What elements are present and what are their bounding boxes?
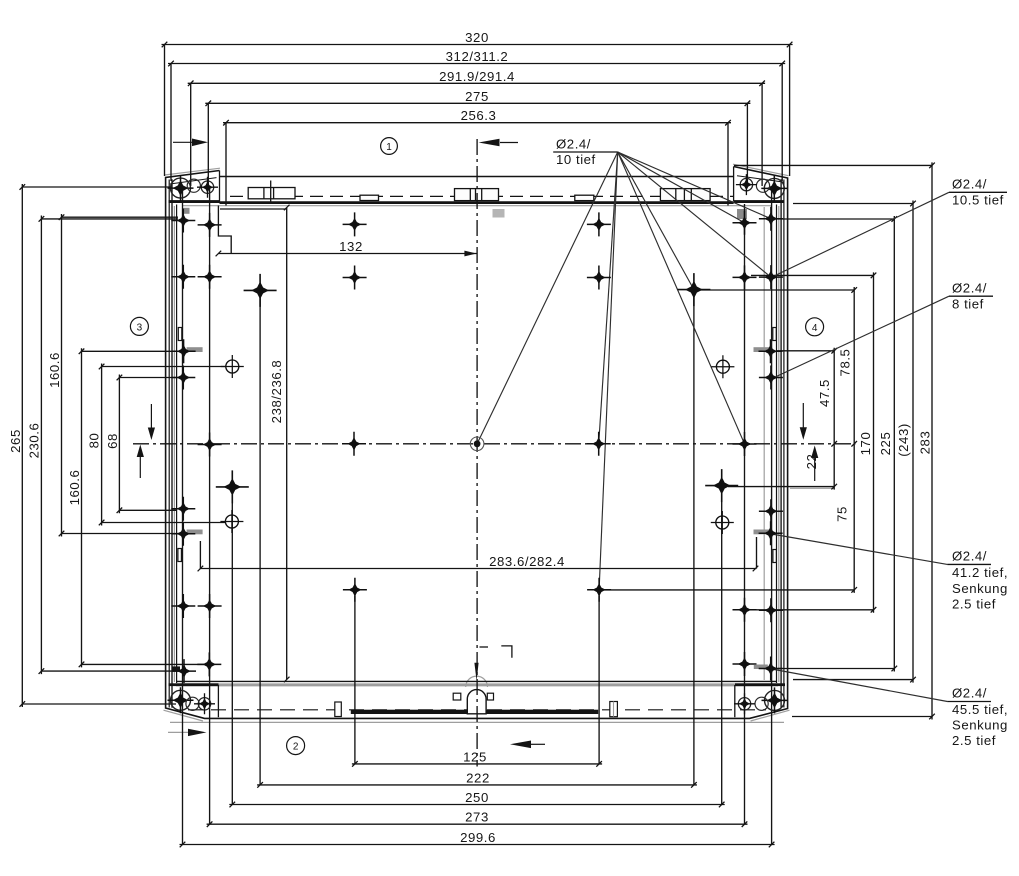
hole cross (598.9,277.5) [587,266,611,290]
underline 10.5 tief [949,191,1007,193]
gray square below top edge right [737,209,747,219]
dim 222 line [257,295,697,785]
svg-text:80: 80 [87,433,102,449]
hole cross (183.3,377.5) [171,366,195,390]
svg-text:68: 68 [105,433,120,449]
dim 132 step bracket [218,206,231,254]
dim 238 top extension [220,208,287,210]
svg-text:238/236.8: 238/236.8 [269,360,284,424]
corner plate TL inner slant [170,178,217,184]
dim 160.6 upper line [62,214,180,537]
svg-text:Ø2.4/: Ø2.4/ [952,177,987,192]
dim 132 arrowhead [464,251,476,257]
circle-cross (722.3,522.5) [711,511,734,534]
small down arrow above notch [474,663,478,681]
notch flank square right [487,693,493,700]
extension column x=771.6 [771,190,773,845]
svg-text:1: 1 [386,142,392,153]
dim 132 line [218,253,476,255]
svg-text:47.5: 47.5 [817,379,832,407]
underline 8 tief [949,295,993,297]
hole cross (599.1,589.8) [587,578,611,602]
hole tab-cross (770.5,351.3) [759,339,783,363]
svg-text:312/311.2: 312/311.2 [446,49,509,64]
corner plate TR left edge [733,167,735,202]
center notch arch [467,690,486,714]
dark rect near bottom-left cross [172,666,180,670]
tab group right [660,189,710,201]
svg-text:299.6: 299.6 [460,830,496,845]
L-mark 1 [480,646,489,648]
hole cross (744.5,609.8) [733,598,757,622]
corner plate TL bottom thick [169,200,220,203]
svg-text:Ø2.4/: Ø2.4/ [952,281,987,296]
arrow right top-left [173,141,193,143]
bottom inner edge [177,680,777,682]
hole cross (598.7,443.8) [587,432,611,456]
dim 78.5/75 line [604,287,854,593]
extension column x=209.6 [209,189,211,824]
side clip right inner [613,702,615,717]
L-mark 2 [501,646,512,658]
tick marks right dims [831,163,934,720]
hole cross (183.3,508.7) [171,497,195,521]
svg-text:160.6: 160.6 [67,470,82,506]
dim 80 line [102,364,226,526]
hole cross (770.9,610.3) [759,598,783,622]
dim 225 line [777,216,894,672]
dim 265 line [22,184,176,707]
fan leader to right wall centerline cross [618,152,745,444]
left inner wall [176,205,178,684]
companion cross-circle TR [736,174,757,195]
dim 256.3 line [223,123,731,206]
svg-text:222: 222 [466,770,490,785]
right wall line 3 [780,179,782,708]
svg-text:230.6: 230.6 [27,423,42,459]
fan leader to center point [477,152,618,444]
svg-text:283.6/282.4: 283.6/282.4 [489,554,565,569]
underline 41.2 tief [947,563,991,565]
left wall line 2 [168,180,170,708]
hole cross (183.3,220.5) [171,209,195,233]
top main edge thick [220,201,734,204]
dim 283 line [734,162,932,719]
boss BR [762,687,788,713]
tab group center [455,189,499,201]
hole cross (770.7,668.5) [759,657,783,681]
hole cross (209.6,606) [198,594,222,618]
gray tail of bottom-left arrow [168,731,190,733]
top wall rim line [220,176,734,178]
hole cross (354,443.8) [342,432,366,456]
dim 230.6 line [41,216,181,675]
wall tab upper left [178,328,182,341]
gray square below top edge center [493,209,505,218]
tab group left [248,188,295,199]
arrow up right-mid [814,457,816,481]
svg-text:320: 320 [465,30,489,45]
underline 45.5 tief [947,701,991,703]
gray bar tab-cross left upper [187,347,203,352]
corner plate TL right edge [219,171,221,202]
companion cross-circle BL [194,693,215,714]
gray right wall line [778,206,780,682]
hole cross (770.9,277.1) [759,265,783,289]
dim (243) line [793,201,913,683]
corner plate BL top thick [169,683,219,686]
big cross (721.7,485.6) [705,469,738,502]
boss TL [168,175,194,201]
svg-text:Senkung: Senkung [952,581,1008,596]
svg-text:78.5: 78.5 [838,349,853,377]
svg-text:125: 125 [463,749,487,764]
hole cross (744.5,444) [733,432,757,456]
hole cross (183.3,606) [171,594,195,618]
top annotation underline [553,151,618,153]
hole cross (354.6,277.5) [343,266,367,290]
small tab right-mid [575,195,594,200]
gray bar tab-cross left lower [187,530,203,535]
hole cross (598.9,224.4) [587,212,611,236]
dim 170 line [751,272,874,612]
svg-text:10.5 tief: 10.5 tief [952,193,1004,208]
gray right rib [763,207,765,680]
arrow down right-mid [802,403,804,428]
top dashed hidden line [230,195,733,197]
corner plate TR bottom thick [734,200,784,203]
companion circle BL [186,697,199,710]
gray left wall line [173,206,175,682]
fan leader to right wall cross row1 [618,152,745,223]
boss BL [168,687,194,713]
gray square below top edge left [184,208,190,214]
gray arch above notch [466,676,488,687]
hole cross (209.6,276.8) [198,265,222,289]
gray corner slant TR [733,164,789,176]
vertical centerline [476,139,478,767]
companion circle TL [187,179,200,192]
arrow right bottom-left [188,729,207,736]
center point [474,440,481,447]
corner plate TR inner slant [737,176,784,182]
hole cross (209.6,224.9) [198,213,222,237]
big cross (693.9,289.6) [677,273,710,306]
svg-text:170: 170 [858,432,873,456]
svg-text:4: 4 [812,323,818,334]
hole cross (744.5,222.8) [733,211,757,235]
svg-text:160.6: 160.6 [47,352,62,388]
hole cross (770.9,511.2) [759,499,783,523]
big cross (260.1,290.4) [244,274,277,307]
left wall line 3 [171,179,173,708]
hole tab-cross (770.6,533.3) [759,521,783,545]
notch flank square left [453,693,461,700]
fan leader to right wall cross row0 [618,152,771,219]
small tab left-mid [360,195,379,200]
svg-text:2: 2 [293,742,299,753]
svg-text:Ø2.4/: Ø2.4/ [952,549,987,564]
svg-text:225: 225 [878,432,893,456]
side clip right [610,702,618,717]
boss TR [761,175,787,201]
hole cross (209.6,444.5) [198,433,222,457]
svg-text:41.2 tief,: 41.2 tief, [952,565,1008,580]
gray top edge line [183,205,771,207]
leader 10.5 tief [772,192,949,277]
gray bar tab-cross right upper [754,347,770,352]
circle-cross (722.9,366.7) [711,355,734,378]
side clip left [335,702,342,717]
companion cross-circle TL [197,177,218,198]
hole tab-cross (183.6,351.3) [172,339,196,363]
svg-text:Ø2.4/: Ø2.4/ [952,686,987,701]
svg-text:75: 75 [835,506,850,522]
circle-cross (231.9,521.5) [220,510,243,533]
svg-text:3: 3 [137,323,143,334]
svg-text:Ø2.4/: Ø2.4/ [556,137,591,152]
outer boundary path [166,167,788,719]
svg-text:45.5 tief,: 45.5 tief, [952,702,1008,717]
svg-text:132: 132 [339,239,363,254]
svg-text:283: 283 [918,431,933,455]
dim 312/311.2 line [168,64,785,182]
bottom thick bar [351,710,598,714]
horizontal centerline [133,443,856,445]
arrow up left-mid [139,456,141,478]
dim 320 line [162,45,793,177]
dim 238 ticks [284,205,290,683]
leader 45.5 tief [772,669,948,702]
arrow left bottom-center [531,743,545,745]
hole cross (183.3,276.8) [171,265,195,289]
dim 125 line [352,596,602,764]
balloon 3 [130,317,148,335]
fan leader to lower mid cross [599,152,618,590]
gray 22-line lower double [790,487,834,489]
dim 160.6 lower line [82,348,205,667]
gray corner slant BL [164,710,204,721]
dim 275 line [205,103,750,187]
hole cross (209.3,664.4) [197,652,221,676]
leader 8 tief [772,296,949,378]
dim 132 tick [216,251,222,257]
svg-text:265: 265 [8,429,23,453]
circle-cross (232.3,366.5) [221,355,244,378]
tick marks top dims [162,42,793,126]
corner plate BL right edge [217,685,219,717]
svg-text:10 tief: 10 tief [556,152,596,167]
leader 41.2 tief [772,534,948,564]
gray bar tab-cross right lower [754,530,770,535]
hole cross (744.5,277.4) [733,265,757,289]
companion circle BR [755,697,768,710]
dim 283.6 ticks [198,566,759,572]
gray bottom outer line [170,721,784,723]
right wall line 2 [783,180,785,708]
fan leader to mid cross [599,152,618,444]
svg-text:2.5 tief: 2.5 tief [952,733,996,748]
hole cross (770.9,218.7) [759,207,783,231]
dim 291.9/291.4 line [188,83,765,186]
dim 238 line [286,208,288,680]
hole cross (354.9,589.8) [343,578,367,602]
companion cross-circle BR [734,693,755,714]
svg-text:273: 273 [465,810,489,825]
tick marks bottom dims [180,761,775,847]
svg-text:256.3: 256.3 [461,108,497,123]
wall tab upper right [773,328,777,341]
wall tab lower left [178,549,182,562]
corner plate BR left edge [734,685,736,717]
fan leader to big cross right [618,152,694,290]
gray bottom inner band [176,683,778,686]
hole cross (770.9,377.5) [759,366,783,390]
dim 68 line [119,375,177,514]
companion circle TR [756,179,769,192]
hole cross (184,671.1) [172,659,196,683]
hole cross (744.5,664) [733,652,757,676]
big cross (232.3,486.9) [216,470,249,503]
svg-text:Senkung: Senkung [952,718,1008,733]
svg-text:250: 250 [465,790,489,805]
wall tab lower right [773,550,777,563]
extension column x=182.5 [182,190,184,845]
extension column x=744.5 [744,204,746,824]
balloon 4 [806,318,824,336]
dim 47.5/22 line [728,348,834,490]
gray corner slant BR [751,710,790,721]
arrow left top-center [500,142,518,144]
hole tab-cross (183.3,533.8) [171,522,195,546]
bottom dashed hidden line [188,709,766,711]
dim 273 line [207,823,748,825]
gray corner slant TL [165,168,221,175]
svg-text:22: 22 [804,454,819,470]
arrow down left-mid [150,404,152,428]
gray bar near (770.7,668.5) [754,665,768,670]
fan leader to right wall cross row2 [618,152,771,277]
dim 250 line [229,491,724,805]
hole cross (354.6,224.4) [343,212,367,236]
svg-text:(243): (243) [896,423,911,457]
svg-text:275: 275 [465,89,489,104]
svg-text:2.5 tief: 2.5 tief [952,597,996,612]
right inner wall [776,205,778,684]
corner plate BR top thick [735,683,785,686]
svg-text:291.9/291.4: 291.9/291.4 [439,69,515,84]
balloon 1 [381,138,398,155]
dim 283.6 line [200,537,756,569]
dim 299.6 line [180,844,775,846]
svg-text:8 tief: 8 tief [952,297,984,312]
tick marks left dims [20,184,123,707]
balloon 2 [287,737,305,755]
